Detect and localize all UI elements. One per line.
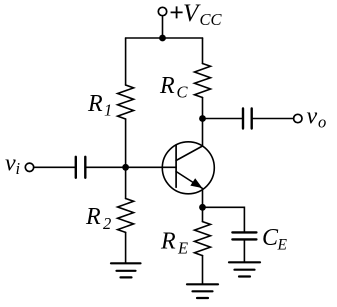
label RC bbox=[159, 73, 189, 102]
node VCC junction bbox=[159, 35, 166, 42]
svg-text:R: R bbox=[160, 229, 176, 255]
label +VCC bbox=[171, 0, 223, 29]
svg-text:R: R bbox=[159, 73, 175, 99]
svg-text:i: i bbox=[16, 159, 21, 178]
wire R2 bottom bbox=[125, 232, 127, 263]
wire R1 bottom bbox=[125, 119, 127, 167]
node collector bbox=[199, 115, 206, 122]
svg-text:E: E bbox=[177, 238, 188, 257]
wire RC bottom bbox=[202, 98, 204, 119]
svg-text:CC: CC bbox=[200, 10, 223, 29]
label R2 bbox=[85, 204, 111, 233]
resistor R1 bbox=[118, 85, 134, 119]
wire collector to C2 bbox=[203, 118, 244, 120]
svg-text:1: 1 bbox=[104, 101, 112, 120]
resistor RE bbox=[195, 222, 211, 256]
svg-text:R: R bbox=[87, 91, 103, 117]
svg-text:C: C bbox=[177, 83, 189, 102]
label CE bbox=[262, 225, 288, 254]
terminal vo bbox=[294, 114, 302, 122]
resistor R2 bbox=[118, 199, 134, 233]
wire VCC stub bbox=[162, 16, 164, 38]
wire emitter to CE bbox=[203, 207, 245, 231]
svg-text:C: C bbox=[262, 225, 279, 251]
svg-text:2: 2 bbox=[103, 214, 111, 233]
resistor RC bbox=[195, 64, 211, 98]
capacitor C2 (output) bbox=[243, 109, 252, 129]
label vo bbox=[307, 104, 327, 132]
svg-text:o: o bbox=[318, 113, 326, 132]
ground CE bbox=[229, 262, 260, 276]
label RE bbox=[160, 229, 188, 258]
wire C2 to vo bbox=[252, 118, 294, 120]
wire CE bottom bbox=[243, 239, 245, 262]
node emitter bbox=[199, 204, 206, 211]
wire R2 top bbox=[125, 167, 127, 198]
wire C1 to base node bbox=[85, 166, 125, 168]
node base junction bbox=[122, 164, 129, 171]
transistor Q1 bbox=[162, 142, 214, 194]
terminal vi bbox=[25, 163, 33, 171]
wire emitter to RE bbox=[202, 207, 204, 221]
ground R2 bbox=[111, 263, 141, 277]
svg-text:v: v bbox=[5, 151, 16, 177]
wire base bbox=[126, 166, 177, 168]
label R1 bbox=[87, 91, 112, 120]
svg-text:R: R bbox=[85, 204, 101, 230]
wire collector to transistor bbox=[202, 119, 204, 147]
ground RE bbox=[187, 284, 218, 298]
label vi bbox=[5, 151, 21, 179]
svg-text:v: v bbox=[307, 104, 318, 130]
svg-text:V: V bbox=[183, 0, 201, 27]
capacitor C1 (input) bbox=[76, 157, 86, 178]
wire vi to C1 bbox=[34, 166, 76, 168]
terminal +VCC bbox=[158, 7, 166, 15]
svg-text:E: E bbox=[277, 237, 288, 254]
wire R1 top bbox=[125, 38, 127, 85]
wire RC top bbox=[202, 38, 204, 64]
capacitor CE bbox=[232, 232, 256, 239]
wire top rail bbox=[126, 37, 203, 39]
wire RE bottom bbox=[202, 256, 204, 284]
wire emitter from transistor bbox=[202, 189, 204, 208]
